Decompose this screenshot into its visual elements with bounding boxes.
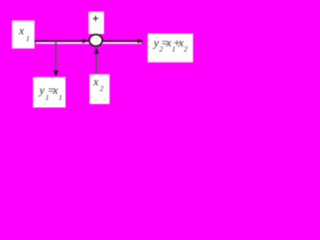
- svg-text:1: 1: [26, 34, 30, 43]
- wire: branch vertical down to y1 box: [55, 41, 57, 71]
- box: y1 = x1: [33, 77, 66, 108]
- svg-text:1: 1: [59, 93, 63, 102]
- arrowhead down into y1 box: [53, 71, 58, 77]
- arrowhead up into summing junction: [94, 48, 99, 54]
- svg-text:2: 2: [100, 84, 104, 93]
- arrowhead into y2 box: [138, 39, 144, 44]
- summing junction circle: [89, 35, 102, 47]
- svg-text:x: x: [18, 26, 25, 38]
- box: plus label above summing junction: [89, 12, 105, 35]
- svg-text:2: 2: [184, 45, 188, 54]
- wire: vertical from x2 box up to summing junction: [96, 53, 98, 75]
- box: input x1: [12, 21, 35, 49]
- box: y2 = x1 + x2: [148, 34, 193, 63]
- arrowhead into summing junction from left: [83, 39, 89, 44]
- svg-text:x: x: [92, 76, 99, 88]
- wire: main horizontal from x1 box through summing junction to output arrow: [34, 40, 143, 44]
- box: input x2: [90, 74, 110, 104]
